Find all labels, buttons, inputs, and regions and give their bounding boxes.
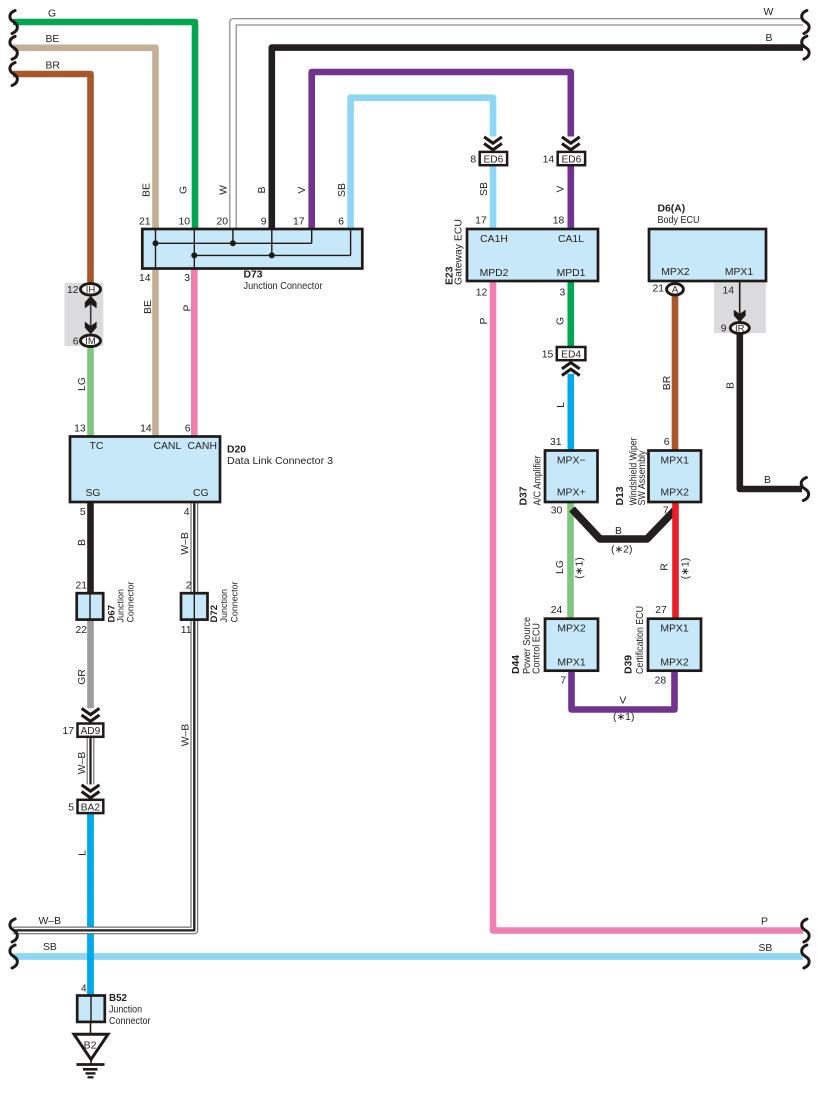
junction connector D72 [181, 580, 241, 636]
svg-text:Junction: Junction [109, 1005, 142, 1016]
svg-text:MPX−: MPX− [557, 455, 586, 466]
svg-text:D6(A): D6(A) [658, 203, 686, 214]
svg-text:B: B [77, 539, 88, 546]
wire P (pink, gateway MPD2 pin 12 to right edge) [476, 279, 809, 942]
svg-text:W–B: W–B [180, 532, 191, 555]
svg-text:CANL: CANL [154, 441, 182, 452]
gateway ECU E23 [444, 219, 598, 285]
svg-text:12: 12 [67, 285, 79, 296]
svg-text:MPX2: MPX2 [661, 488, 690, 499]
connector ED6 pin 14 (with chevron) [543, 137, 585, 166]
svg-text:(∗2): (∗2) [611, 545, 632, 556]
svg-text:MPD1: MPD1 [557, 268, 586, 279]
svg-text:ED6: ED6 [483, 155, 503, 166]
svg-text:(∗1): (∗1) [613, 712, 634, 723]
svg-text:P: P [183, 304, 194, 311]
svg-text:MPX1: MPX1 [725, 267, 754, 278]
svg-text:14: 14 [140, 424, 152, 435]
svg-text:SB: SB [43, 942, 57, 953]
svg-text:14: 14 [139, 273, 151, 284]
svg-text:W–B: W–B [181, 724, 192, 747]
svg-text:D39: D39 [623, 655, 634, 674]
wire BE (beige, left edge to D73 pin 21) [10, 34, 156, 232]
connector ED4 pin 15 (with chevron) [542, 347, 586, 376]
data link connector 3 D20 [70, 424, 333, 518]
break symbol W right edge [802, 11, 809, 34]
wire LG (light green, D37 MPX+ pin 30 to D44 MPX2 pin 24) [551, 500, 586, 621]
svg-text:Data Link Connector 3: Data Link Connector 3 [227, 456, 333, 467]
svg-text:G: G [179, 186, 190, 194]
wire B (black, D20 SG pin 5 to D67 pin 21) [77, 500, 91, 595]
connector IR pin 9 [721, 323, 750, 335]
svg-text:17: 17 [293, 216, 305, 227]
connector BA2 pin 5 (with chevron) [68, 785, 103, 813]
svg-text:IM: IM [85, 336, 96, 347]
svg-text:27: 27 [655, 605, 667, 616]
svg-text:ED4: ED4 [561, 350, 581, 361]
svg-text:4: 4 [184, 507, 190, 518]
svg-text:31: 31 [550, 437, 562, 448]
wire B (black, connector IR to right edge) [726, 332, 809, 501]
wire B (black jumper, D37 MPX+ pin 30 to D13 MPX2 pin 7) [572, 509, 675, 556]
svg-text:SB: SB [479, 182, 490, 196]
svg-text:6: 6 [185, 424, 191, 435]
break symbol W-B left edge [10, 919, 17, 942]
wire BE (D73 pin 14 to D20 CANL pin 14) [139, 266, 156, 439]
wire SB (sky blue bus, left edge to right edge) [10, 942, 809, 968]
svg-text:TC: TC [90, 441, 104, 452]
break symbol BE left edge [10, 36, 17, 59]
svg-text:Certification ECU: Certification ECU [635, 606, 646, 674]
svg-text:12: 12 [476, 288, 488, 299]
svg-text:B: B [257, 186, 268, 193]
svg-text:8: 8 [470, 155, 476, 166]
svg-text:24: 24 [551, 605, 563, 616]
svg-text:BR: BR [46, 60, 61, 71]
svg-text:L: L [556, 402, 567, 408]
wire V (violet, D73 pin 17 to ED6 pin 14 to gateway pin 18) [293, 72, 571, 232]
svg-text:ED6: ED6 [561, 155, 581, 166]
svg-text:4: 4 [81, 984, 87, 995]
svg-text:V: V [556, 185, 567, 192]
svg-text:LG: LG [555, 560, 566, 574]
svg-text:7: 7 [663, 506, 669, 517]
svg-text:(∗1): (∗1) [681, 558, 692, 579]
svg-text:21: 21 [652, 284, 664, 295]
svg-text:Connector: Connector [126, 581, 137, 623]
svg-text:BE: BE [46, 34, 60, 45]
A/C amplifier D37 [519, 451, 598, 506]
wire R (red, D13 MPX2 pin 7 to D39 MPX1 pin 27) [655, 500, 691, 621]
wire G (green, gateway MPD1 pin 3 to connector ED4) [556, 279, 571, 348]
wire L (blue, connector BA2 to B52 pin 4) [78, 812, 91, 998]
junction dot pin 21 [153, 240, 159, 246]
wire B (black, D73 pin 9 to right edge) [257, 33, 809, 232]
wire BR (brown, connector A to D13 MPX1 pin 6) [662, 294, 675, 452]
svg-text:BE: BE [143, 300, 154, 314]
break symbol BR left edge [10, 63, 17, 86]
svg-text:3: 3 [184, 273, 190, 284]
svg-text:3: 3 [560, 288, 566, 299]
wire L (blue, connector ED4 to D37 MPX- pin 31) [550, 374, 571, 452]
svg-text:MPX1: MPX1 [661, 455, 690, 466]
svg-text:SG: SG [86, 488, 101, 499]
svg-text:L: L [78, 850, 89, 856]
svg-text:Connector: Connector [109, 1016, 151, 1027]
svg-text:CA1H: CA1H [480, 234, 508, 245]
wire GR (gray, D67 pin 22 to connector AD9) [77, 618, 91, 708]
svg-text:22: 22 [75, 625, 87, 636]
wire P (pink, D73 pin 3 to D20 CANH pin 6) [183, 266, 195, 439]
svg-text:P: P [761, 916, 768, 927]
svg-text:13: 13 [74, 424, 86, 435]
wire LG (light green, connector IM to D20 TC pin 13) [77, 346, 91, 439]
svg-text:11: 11 [181, 625, 192, 636]
svg-text:17: 17 [475, 216, 487, 227]
svg-text:MPX2: MPX2 [557, 624, 586, 635]
svg-text:AD9: AD9 [80, 726, 100, 737]
ground B2 [74, 1022, 108, 1077]
svg-text:Connector: Connector [229, 581, 240, 623]
wire W (white, D73 pin 20 to right edge) [216, 7, 809, 232]
break symbol SB left edge [10, 945, 17, 968]
svg-text:MPX2: MPX2 [661, 267, 690, 278]
svg-text:21: 21 [75, 580, 87, 591]
break symbol SB right edge [802, 945, 809, 968]
connector AD9 pin 17 (with chevron) [62, 708, 103, 737]
svg-text:7: 7 [560, 676, 566, 687]
svg-text:V: V [297, 186, 308, 193]
wire W-B (white-black, D20 CG pin 4 to D72 pin 2) [180, 500, 194, 595]
connector ED6 pin 8 (with chevron) [470, 137, 507, 166]
svg-text:B: B [766, 33, 773, 44]
junction connector D73 [142, 229, 362, 292]
connector A pin 21 (body ECU MPX2) [652, 284, 683, 296]
wire V (violet, D44 MPX1 pin 7 to D39 MPX2 pin 28) [560, 668, 674, 723]
connector IH pin 12 [67, 284, 101, 296]
svg-text:D20: D20 [227, 445, 246, 456]
svg-text:CA1L: CA1L [558, 234, 584, 245]
svg-text:14: 14 [543, 155, 555, 166]
svg-text:D37: D37 [519, 486, 530, 505]
svg-text:17: 17 [62, 726, 74, 737]
svg-text:BE: BE [142, 183, 153, 197]
svg-text:9: 9 [261, 216, 267, 227]
svg-text:GR: GR [77, 669, 88, 685]
svg-text:B: B [726, 382, 737, 389]
svg-text:MPD2: MPD2 [480, 268, 509, 279]
svg-text:MPX2: MPX2 [660, 658, 689, 669]
gray shading behind IH/IM connectors [64, 283, 103, 346]
svg-text:(∗1): (∗1) [575, 557, 586, 578]
svg-text:V: V [619, 695, 626, 706]
svg-text:6: 6 [664, 437, 670, 448]
svg-text:A/C Amplifier: A/C Amplifier [532, 455, 543, 505]
break symbol P right edge [802, 919, 809, 942]
svg-text:28: 28 [655, 676, 667, 687]
svg-text:D44: D44 [511, 655, 522, 674]
break symbol G left edge [10, 11, 17, 34]
wire W-B (D72 pin 11 to left edge) [10, 618, 194, 942]
power source control ECU D44 [511, 617, 598, 674]
junction connector B52 pin 4 [77, 984, 151, 1028]
svg-text:Control ECU: Control ECU [532, 623, 543, 674]
junction dot pin 9 [269, 252, 275, 258]
svg-text:5: 5 [68, 802, 74, 813]
svg-text:W: W [219, 185, 230, 195]
svg-text:A: A [672, 285, 679, 296]
certification ECU D39 [623, 606, 701, 674]
wire G (green, left edge to D73 pin 10) [10, 9, 195, 233]
svg-text:W–B: W–B [39, 916, 62, 927]
svg-text:MPX1: MPX1 [557, 658, 586, 669]
svg-text:14: 14 [722, 286, 734, 297]
wire SB (sky blue, D73 pin 6 to ED6 pin 8 to gateway pin 17) [337, 98, 493, 232]
svg-text:G: G [48, 9, 56, 20]
svg-text:BA2: BA2 [81, 802, 101, 813]
svg-text:CANH: CANH [188, 441, 217, 452]
internal bus A (pins 21-20-17-14) [156, 229, 351, 269]
svg-text:15: 15 [542, 350, 554, 361]
svg-text:SW Assembly: SW Assembly [637, 450, 648, 506]
svg-text:B: B [615, 526, 622, 537]
junction connector D67 [75, 580, 136, 636]
svg-text:MPX+: MPX+ [557, 488, 586, 499]
body ECU D6(A) [649, 203, 766, 281]
svg-text:IH: IH [86, 285, 96, 296]
svg-text:18: 18 [553, 216, 565, 227]
wire BR (brown, left edge to connector IH) [10, 60, 91, 284]
svg-text:10: 10 [178, 216, 190, 227]
svg-text:9: 9 [721, 324, 727, 335]
svg-text:B: B [764, 475, 771, 486]
windshield wiper SW assembly D13 [615, 437, 701, 505]
svg-text:D73: D73 [244, 270, 263, 281]
svg-text:20: 20 [216, 216, 228, 227]
svg-text:W: W [764, 7, 774, 18]
break symbol B right edge [802, 36, 809, 59]
svg-text:LG: LG [77, 377, 88, 391]
svg-text:21: 21 [139, 216, 151, 227]
junction dot pin 10 [191, 252, 197, 258]
connector IM pin 6 [73, 335, 101, 347]
svg-text:SB: SB [759, 943, 773, 954]
pin 14 arrow (body ECU MPX1 to IR) [722, 281, 745, 322]
svg-text:G: G [556, 317, 567, 325]
gray shading behind pin14/IR connector [714, 282, 766, 333]
break symbol B right edge [801, 478, 808, 501]
svg-text:P: P [479, 317, 490, 324]
svg-text:2: 2 [186, 580, 192, 591]
svg-text:30: 30 [551, 506, 563, 517]
svg-text:B2: B2 [84, 1040, 97, 1052]
svg-text:CG: CG [193, 488, 209, 499]
svg-text:BR: BR [662, 375, 673, 390]
svg-text:W–B: W–B [77, 752, 88, 775]
svg-text:B52: B52 [109, 993, 128, 1004]
svg-text:D13: D13 [615, 486, 626, 505]
svg-text:6: 6 [338, 216, 344, 227]
svg-text:SB: SB [337, 183, 348, 197]
svg-text:Junction Connector: Junction Connector [244, 281, 323, 292]
svg-text:IR: IR [735, 323, 745, 334]
wire W-B (connector AD9 to connector BA2) [77, 737, 91, 785]
double arrow between IH and IM [85, 296, 97, 334]
svg-text:R: R [660, 563, 671, 571]
svg-text:Gateway ECU: Gateway ECU [454, 219, 465, 285]
junction dot pin 20 [230, 240, 236, 246]
svg-text:5: 5 [80, 507, 86, 518]
svg-text:MPX1: MPX1 [660, 624, 689, 635]
svg-text:6: 6 [73, 337, 79, 348]
svg-text:Body ECU: Body ECU [658, 215, 700, 226]
